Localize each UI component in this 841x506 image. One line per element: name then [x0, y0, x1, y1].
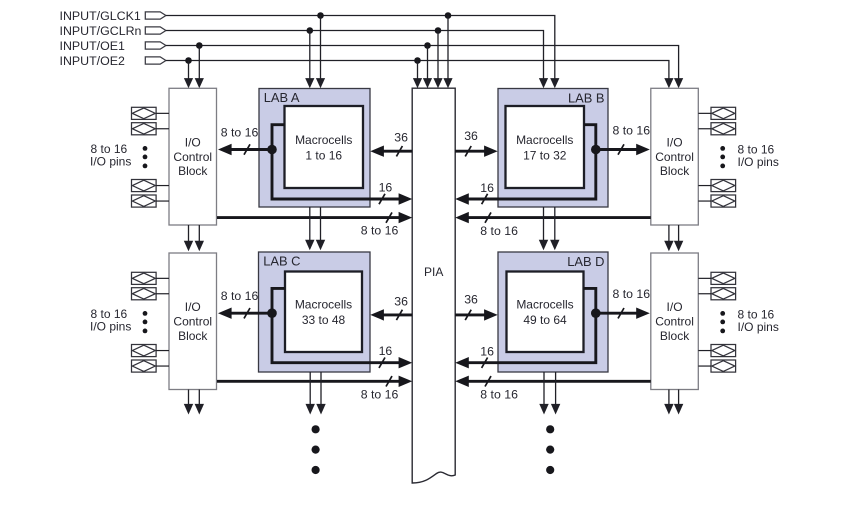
wire INPUT/GCLRn run to LAB B	[166, 31, 548, 89]
label 8 to 16 (D to I/O)	[613, 287, 651, 301]
svg-text:Block: Block	[178, 164, 208, 178]
LAB C block	[259, 252, 371, 372]
wire INPUT/OE2 run to right I/O block	[166, 61, 674, 89]
svg-text:INPUT/OE2: INPUT/OE2	[60, 54, 126, 68]
svg-text:17 to 32: 17 to 32	[523, 148, 567, 162]
I/O pin symbol right bottom 2	[698, 288, 735, 300]
I/O pin symbol right bottom 3	[698, 345, 735, 357]
svg-text:16: 16	[379, 344, 393, 358]
bus width slash 8to16-C	[244, 308, 250, 318]
label 8 to 16 (left I/O to PIA)	[361, 387, 399, 401]
svg-text:8 to 16: 8 to 16	[221, 126, 259, 140]
right I/O chain arrows (top to bottom block)	[664, 225, 683, 251]
junction dot GLCK1/PIA	[445, 12, 452, 19]
bus width slash 16-C	[379, 358, 385, 368]
bus: LAB C to I/O control block (8 to 16)	[218, 308, 272, 319]
LAB D macrocells label	[516, 298, 573, 328]
ellipsis below LAB D	[546, 425, 554, 474]
svg-text:Control: Control	[655, 314, 694, 328]
label 36 (A)	[394, 131, 408, 145]
svg-text:I/O: I/O	[185, 300, 201, 314]
LAB A block	[259, 89, 370, 208]
I/O pin symbol left bottom 1	[132, 272, 170, 284]
svg-text:36: 36	[464, 293, 478, 307]
label 8 to 16 (C to I/O)	[221, 289, 259, 303]
wire OE2 branch to PIA	[413, 61, 422, 89]
I/O pin symbol right bottom 1	[698, 272, 735, 284]
LAB C macrocell array box	[285, 272, 362, 353]
label 16 (B)	[480, 181, 494, 195]
label 16 (C)	[379, 344, 393, 358]
wire OE2 branch to left I/O block	[184, 61, 193, 89]
wire GLCK1 branch to LAB A	[316, 16, 325, 89]
input pin INPUT/OE1	[60, 39, 166, 53]
svg-text:8 to 16: 8 to 16	[480, 388, 518, 402]
LAB D label	[567, 254, 604, 269]
wire INPUT/OE1 run to right I/O block	[166, 46, 683, 89]
LAB A macrocell array box	[285, 106, 364, 188]
junction dot LAB C feedback	[267, 308, 277, 318]
left top I/O pins label	[90, 142, 131, 168]
I/O Control Block top-left	[169, 88, 217, 225]
bus width slash 8to16-bottom-B	[485, 212, 491, 222]
I/O pin symbol left top 3	[132, 180, 170, 192]
svg-text:LAB A: LAB A	[264, 90, 300, 105]
left bottom I/O continuation arrows	[184, 390, 204, 415]
LAB B macrocell array box	[506, 106, 585, 188]
wire GCLRn branch to LAB A	[305, 31, 314, 89]
LAB B label	[568, 90, 605, 105]
bus: LAB A macrocell feedback to PIA (16 wide)	[272, 125, 412, 205]
label 16 (A)	[379, 180, 393, 194]
svg-text:I/O: I/O	[185, 135, 201, 149]
bus: right I/O block to PIA (8 to 16)	[455, 212, 651, 223]
svg-text:Control: Control	[655, 150, 694, 164]
I/O pin symbol right top 2	[698, 123, 735, 135]
svg-text:I/O: I/O	[667, 300, 683, 314]
right top I/O pins label	[738, 142, 779, 169]
svg-text:PIA: PIA	[424, 265, 443, 279]
LAB D macrocell array box	[507, 272, 584, 353]
I/O pin symbol right top 3	[698, 180, 735, 192]
bus width slash 8to16-bottom-C	[386, 376, 392, 386]
left bottom I/O pins ellipsis	[143, 311, 148, 333]
bus width slash 36-B	[465, 146, 471, 156]
I/O pin symbol left bottom 4	[132, 360, 170, 372]
svg-text:INPUT/GLCK1: INPUT/GLCK1	[60, 9, 141, 23]
right bottom I/O pins ellipsis	[720, 311, 725, 333]
I/O Control Block bottom-right	[651, 253, 699, 390]
svg-text:8 to 16: 8 to 16	[613, 287, 651, 301]
svg-text:8 to 16: 8 to 16	[221, 289, 259, 303]
label 36 (D)	[464, 293, 478, 307]
svg-text:Block: Block	[660, 164, 690, 178]
junction dot GCLRn/PIA	[435, 27, 442, 34]
svg-text:Block: Block	[660, 329, 690, 343]
label 8 to 16 (left I/O to PIA)	[361, 224, 399, 238]
bus width slash 36-A	[396, 146, 402, 156]
junction dot LAB D feedback	[591, 308, 601, 318]
svg-text:8 to 16: 8 to 16	[361, 224, 399, 238]
svg-text:36: 36	[464, 129, 478, 143]
svg-text:49 to 64: 49 to 64	[523, 313, 567, 327]
PIA label	[424, 265, 443, 279]
bus: left I/O block to PIA (8 to 16)	[217, 212, 412, 223]
svg-text:Macrocells: Macrocells	[295, 133, 352, 147]
LAB C macrocells label	[295, 298, 352, 328]
input pin INPUT/OE2	[60, 54, 166, 68]
label 8 to 16 (B to I/O)	[613, 123, 651, 137]
svg-text:36: 36	[394, 131, 408, 145]
svg-text:INPUT/GCLRn: INPUT/GCLRn	[60, 24, 142, 38]
bus: LAB D to I/O control block (8 to 16)	[596, 308, 650, 319]
svg-text:INPUT/OE1: INPUT/OE1	[60, 39, 126, 53]
svg-text:I/O pins: I/O pins	[738, 155, 779, 169]
svg-text:Macrocells: Macrocells	[516, 133, 573, 147]
I/O pin symbol left top 1	[132, 107, 170, 119]
bus width slash 8to16-bottom-D	[485, 376, 491, 386]
bus width slash 8to16-A	[244, 144, 250, 154]
svg-text:8 to 16: 8 to 16	[613, 123, 651, 137]
svg-text:16: 16	[379, 180, 393, 194]
bus: PIA to LAB A (36 wide)	[370, 146, 412, 157]
LAB C continuation arrows	[306, 372, 326, 415]
LAB D block	[498, 252, 608, 372]
left bottom I/O pins label	[90, 307, 131, 333]
LAB B block	[498, 89, 608, 208]
label 16 (D)	[480, 345, 494, 359]
junction dot OE1/left I-O	[196, 42, 203, 49]
svg-text:LAB B: LAB B	[568, 90, 605, 105]
label 8 to 16 (A to I/O)	[221, 126, 259, 140]
right bottom I/O continuation arrows	[664, 390, 683, 415]
junction dot GCLRn/LAB A	[307, 27, 314, 34]
bus: LAB B macrocell feedback to PIA (16 wide)	[455, 125, 596, 205]
I/O pin symbol left top 2	[132, 123, 170, 135]
LAB A label	[264, 90, 300, 105]
svg-text:8 to 16: 8 to 16	[361, 387, 399, 401]
svg-text:I/O pins: I/O pins	[90, 154, 131, 168]
label 36 (C)	[394, 294, 408, 308]
svg-text:33 to 48: 33 to 48	[302, 313, 346, 327]
svg-text:LAB D: LAB D	[567, 254, 604, 269]
I/O pin symbol right bottom 4	[698, 360, 735, 372]
svg-text:I/O pins: I/O pins	[738, 320, 779, 334]
PIA interconnect block	[412, 88, 455, 483]
svg-text:Control: Control	[173, 314, 212, 328]
left I/O chain arrows (top to bottom block)	[184, 225, 204, 251]
LAB B macrocells label	[516, 133, 573, 163]
LAB D continuation arrows	[539, 372, 560, 415]
LAB C label	[263, 253, 300, 268]
I/O pin symbol right top 4	[698, 195, 735, 207]
junction dot OE1/PIA	[424, 42, 431, 49]
bus width slash 16-D	[482, 358, 488, 368]
wire GCLRn branch to PIA	[433, 31, 442, 89]
junction dot LAB A feedback	[267, 145, 277, 155]
I/O pin symbol left bottom 3	[132, 345, 170, 357]
I/O pin symbol left top 4	[132, 195, 170, 207]
bus: PIA to LAB B (36 wide)	[455, 146, 498, 157]
wire OE1 branch to left I/O block	[195, 46, 204, 89]
svg-text:16: 16	[480, 181, 494, 195]
right bottom I/O pins label	[738, 307, 779, 334]
junction dot OE2/PIA	[414, 57, 421, 64]
LAB B to LAB D clock/clear arrows	[539, 207, 560, 250]
junction dot GLCK1/LAB A	[317, 12, 324, 19]
junction dot LAB B feedback	[591, 145, 601, 155]
input pin INPUT/GLCK1	[60, 9, 166, 23]
svg-text:Macrocells: Macrocells	[516, 298, 573, 312]
bus width slash 8to16-D	[618, 308, 624, 318]
wire INPUT/GLCK1 run to LAB B	[166, 16, 560, 89]
svg-text:LAB C: LAB C	[263, 253, 300, 268]
I/O pin symbol left bottom 2	[132, 288, 170, 300]
bus: LAB D macrocell feedback to PIA (16 wide)	[455, 288, 596, 368]
bus: left I/O block to PIA (8 to 16)	[217, 376, 412, 387]
right top I/O pins ellipsis	[720, 146, 725, 168]
I/O Control Block bottom-left	[169, 253, 217, 390]
svg-text:36: 36	[394, 294, 408, 308]
svg-text:Control: Control	[173, 150, 212, 164]
svg-text:I/O pins: I/O pins	[90, 319, 131, 333]
bus: PIA to LAB C (36 wide)	[370, 309, 412, 320]
svg-text:Macrocells: Macrocells	[295, 298, 352, 312]
bus width slash 36-C	[396, 310, 402, 320]
left top I/O pins ellipsis	[143, 146, 148, 168]
input pin INPUT/GCLRn	[60, 24, 166, 38]
wire GLCK1 branch to PIA	[443, 16, 452, 89]
bus width slash 16-B	[482, 194, 488, 204]
svg-text:16: 16	[480, 345, 494, 359]
bus: LAB A to I/O control block (8 to 16)	[218, 144, 272, 155]
svg-text:1 to 16: 1 to 16	[305, 148, 342, 162]
svg-text:8 to 16: 8 to 16	[480, 224, 518, 238]
bus width slash 8to16-B	[618, 144, 624, 154]
wire OE1 branch to PIA	[423, 46, 432, 89]
label 36 (B)	[464, 129, 478, 143]
svg-text:Block: Block	[178, 329, 208, 343]
bus width slash 36-D	[465, 310, 471, 320]
bus width slash 8to16-bottom-A	[386, 212, 392, 222]
LAB A macrocells label	[295, 133, 352, 163]
bus: right I/O block to PIA (8 to 16)	[455, 376, 651, 387]
bus: LAB C macrocell feedback to PIA (16 wide)	[272, 288, 412, 368]
ellipsis below LAB C	[312, 425, 320, 474]
svg-text:I/O: I/O	[667, 135, 683, 149]
junction dot OE2/left I-O	[185, 57, 192, 64]
bus: LAB B to I/O control block (8 to 16)	[596, 144, 650, 155]
label 8 to 16 (right I/O to PIA)	[480, 224, 518, 238]
I/O pin symbol right top 1	[698, 107, 735, 119]
bus: PIA to LAB D (36 wide)	[455, 309, 498, 320]
bus width slash 16-A	[379, 194, 385, 204]
label 8 to 16 (right I/O to PIA)	[480, 388, 518, 402]
LAB A to LAB C clock/clear arrows	[305, 207, 325, 250]
I/O Control Block top-right	[651, 88, 699, 225]
